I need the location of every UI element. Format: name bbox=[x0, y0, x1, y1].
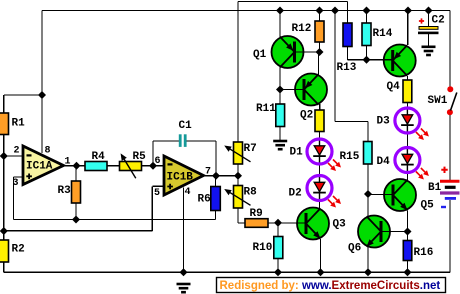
svg-text:R15: R15 bbox=[340, 151, 360, 163]
svg-text:C1: C1 bbox=[179, 120, 193, 132]
svg-text:D3: D3 bbox=[377, 116, 391, 128]
svg-text:R8: R8 bbox=[244, 187, 258, 199]
svg-text:D4: D4 bbox=[377, 156, 391, 168]
wire x335 vertical long bbox=[334, 11, 336, 122]
LED D1 bbox=[307, 138, 332, 166]
wire resistor to D1 anode bbox=[319, 132, 321, 138]
node junction supply rail R14 top bbox=[363, 7, 371, 15]
wire C1 feedback right vertical to pin7 bbox=[215, 141, 217, 176]
wire main positive supply rail y10.5 bbox=[42, 10, 450, 12]
node junction supply rail x280 (Q1 emitter) bbox=[276, 7, 284, 15]
wire IC1A pin2 horizontal bbox=[4, 155, 23, 157]
wire Q5 emitter vertical bbox=[407, 210, 409, 231]
wire R12 top vertical bbox=[319, 11, 321, 22]
resistor R3 bbox=[72, 181, 81, 203]
svg-text:R14: R14 bbox=[373, 28, 393, 40]
trimmer arrow R7 bbox=[224, 146, 250, 162]
svg-text:2: 2 bbox=[14, 146, 20, 157]
wire R10 bottom vertical bbox=[277, 259, 279, 273]
trimmer arrow R8 bbox=[224, 189, 250, 205]
battery B1 bbox=[440, 181, 460, 198]
node junction pin7 R6 top x216 bbox=[212, 172, 220, 180]
LED D4 bbox=[395, 146, 420, 174]
wire R13 bottom elbow bbox=[347, 47, 349, 60]
svg-text:R1: R1 bbox=[12, 118, 26, 130]
wire Q6 base horizontal bbox=[381, 231, 408, 233]
IC1A plus sign non-inverting input mark bbox=[26, 174, 32, 180]
resistor R9 bbox=[245, 219, 268, 228]
svg-text:R16: R16 bbox=[414, 247, 434, 259]
wire IC1B output pin7 bbox=[204, 175, 239, 177]
wire Q6 collector vertical bbox=[367, 194, 369, 217]
svg-text:B1: B1 bbox=[428, 182, 442, 194]
switch SW1 bbox=[447, 86, 457, 115]
resistor R15 bbox=[364, 142, 373, 165]
wire left rail R1 to pin2 node bbox=[3, 135, 5, 157]
svg-text:6: 6 bbox=[155, 156, 161, 167]
svg-text:SW1: SW1 bbox=[428, 95, 448, 107]
node junction supply rail C2 top bbox=[425, 7, 433, 15]
svg-text:R11: R11 bbox=[256, 103, 276, 115]
wire R1 branch horizontal y95 bbox=[4, 94, 42, 96]
wire R8 top to node bbox=[237, 176, 239, 186]
wire R6 top vertical bbox=[215, 176, 217, 187]
transistor Q2 bbox=[295, 74, 327, 106]
resistor R11 bbox=[276, 104, 285, 127]
wire C1 feedback top left segment bbox=[153, 140, 179, 142]
svg-text:C2: C2 bbox=[432, 15, 445, 27]
wire Q4 emitter vertical bbox=[407, 11, 409, 46]
node junction supply rail x408 (Q4 emitter) bbox=[404, 7, 412, 15]
wire left rail pin2 node to pin5 node bbox=[3, 156, 5, 231]
wire left rail to R2 top bbox=[3, 231, 5, 240]
node junction R14 bottom base net bbox=[363, 56, 371, 64]
wire switch to battery plus bbox=[449, 115, 451, 180]
wire IC1B pin5 net: left segment y231 bbox=[4, 230, 153, 232]
wire Q1 base to node x319 bbox=[295, 51, 320, 53]
wire R12 bottom vertical bbox=[319, 42, 321, 52]
svg-text:Q4: Q4 bbox=[387, 81, 401, 93]
wire R2 bottom to ground rail bbox=[3, 262, 5, 272]
transistor Q3 bbox=[297, 208, 329, 240]
svg-text:D1: D1 bbox=[290, 147, 304, 159]
wire R11 top vertical bbox=[279, 90, 281, 105]
wire Q2 collector to emitter resistor bbox=[319, 104, 321, 110]
wire Q3 emitter vertical to ground rail bbox=[320, 239, 322, 272]
svg-text:Q3: Q3 bbox=[333, 219, 347, 231]
node junction R3 bottom y219.5 bbox=[72, 216, 80, 224]
svg-text:Q6: Q6 bbox=[348, 243, 361, 255]
wire R9 to Q3 base bbox=[268, 222, 306, 224]
node junction R16 bottom rail bbox=[404, 268, 412, 276]
svg-text:D2: D2 bbox=[289, 188, 302, 200]
node junction pin6 x153 bbox=[149, 162, 157, 170]
wire right rail top segment to switch bbox=[449, 11, 451, 88]
wire R7 bottom to node bbox=[237, 164, 239, 176]
wire C2 bottom to ground bbox=[428, 34, 430, 46]
node junction supply rail x319 (R12 top) bbox=[316, 7, 324, 15]
IC1B minus sign bbox=[168, 163, 173, 165]
wire C1 feedback left vertical bbox=[152, 141, 154, 166]
op-amp IC1A bbox=[23, 146, 64, 185]
wire IC1A pin3 horizontal bbox=[14, 176, 24, 178]
node junction ground x183.5 bbox=[180, 268, 188, 276]
wire vertical x347 from top rail down to R13 top bbox=[347, 2, 349, 24]
trimmer arrow R5 bbox=[121, 153, 136, 178]
ground symbol below R11 bbox=[273, 141, 287, 149]
attribution box bbox=[217, 278, 446, 293]
wire resistor to D3 anode bbox=[406, 103, 408, 107]
resistor below Q4 (unlabeled) bbox=[403, 80, 412, 103]
trimmer resistor R8 bbox=[234, 186, 243, 209]
wire battery minus down right rail bbox=[449, 200, 451, 272]
battery minus polarity mark bbox=[441, 206, 446, 208]
resistor R10 bbox=[274, 237, 283, 259]
node junction Q1 collector Q2 base R11 bbox=[276, 86, 284, 94]
wire R5 to IC1B pin6 bbox=[142, 165, 165, 167]
node junction Q5 emitter Q6 base R16 top bbox=[404, 228, 412, 236]
wire vertical x42 supply to IC1A pin8 bbox=[41, 11, 43, 154]
svg-text:R10: R10 bbox=[253, 242, 273, 254]
node junction R10 bottom rail bbox=[274, 268, 282, 276]
wire Q4 collector to resistor bbox=[407, 76, 409, 80]
transistor Q6 bbox=[358, 216, 390, 248]
wire IC1B pin5 net: vertical x152 bbox=[151, 186, 153, 231]
node junction Q6 emitter bottom rail bbox=[364, 268, 372, 276]
svg-text:IC1A: IC1A bbox=[26, 161, 53, 173]
capacitor C1 bbox=[179, 134, 187, 147]
wire R3 bottom vertical bbox=[75, 203, 77, 220]
wire R15 top vertical bbox=[367, 122, 369, 142]
wire bottom ground rail y272 bbox=[4, 271, 450, 273]
node junction supply rail x335 bbox=[331, 7, 339, 15]
wire left rail x4 upper bbox=[3, 95, 5, 113]
wire D3 cathode to D4 anode bbox=[406, 135, 408, 147]
svg-text:R4: R4 bbox=[92, 151, 106, 163]
wire R15 bottom vertical bbox=[367, 164, 369, 194]
svg-text:IC1B: IC1B bbox=[167, 172, 194, 184]
resistor R1 bbox=[0, 113, 9, 135]
wire C1 feedback top right segment bbox=[187, 140, 216, 142]
wire R14 bottom vertical bbox=[366, 46, 368, 60]
LED D3 bbox=[395, 107, 420, 135]
node junction x42 y95 bbox=[38, 91, 46, 99]
wire R11 bottom to ground bbox=[279, 127, 281, 141]
node junction IC1A output x76.5 bbox=[73, 162, 81, 170]
svg-text:5: 5 bbox=[154, 188, 160, 199]
IC1B plus sign bbox=[167, 184, 173, 190]
svg-text:R5: R5 bbox=[133, 151, 147, 163]
capacitor C2 polarized bbox=[418, 27, 439, 35]
wire pin3 vertical x13.5 bbox=[13, 177, 15, 220]
svg-text:8: 8 bbox=[45, 146, 51, 157]
wire pin3 net horizontal y219.5 to R6 bottom bbox=[14, 219, 216, 221]
resistor R4 bbox=[85, 162, 107, 171]
resistor below Q2 (unlabeled) bbox=[315, 110, 324, 132]
node junction R12 bottom Q1 base Q2 emitter bbox=[316, 48, 324, 56]
svg-text:R3: R3 bbox=[58, 185, 72, 197]
svg-text:Q2: Q2 bbox=[300, 110, 313, 122]
wire R16 bottom vertical bbox=[407, 261, 409, 273]
wire y121.5 horizontal to R15 column bbox=[335, 121, 368, 123]
wire R10 top vertical bbox=[277, 223, 279, 237]
svg-text:R9: R9 bbox=[250, 208, 263, 220]
svg-text:R13: R13 bbox=[337, 62, 357, 74]
wire R6 bottom vertical bbox=[215, 211, 217, 220]
transistor Q1 bbox=[272, 36, 304, 68]
wire D4 cathode to Q5 collector bbox=[406, 174, 408, 180]
wire Q4 base horizontal bbox=[367, 59, 393, 61]
node junction Q3 emitter bottom rail bbox=[317, 268, 325, 276]
wire Q6 emitter vertical to ground rail bbox=[367, 247, 369, 272]
wire R8 bottom elbow to R9 bbox=[237, 208, 239, 223]
wire top feedback rail (R7 top to R13 top) bbox=[238, 1, 348, 3]
svg-text:Redisgned by: www.ExtremeCircu: Redisgned by: www.ExtremeCircuits.net bbox=[220, 280, 441, 292]
trimmer resistor R5 bbox=[120, 162, 142, 171]
resistor R16 bbox=[403, 241, 412, 261]
resistor R14 bbox=[362, 23, 371, 46]
node junction R10 top x278 bbox=[274, 219, 282, 227]
svg-text:Q1: Q1 bbox=[253, 49, 267, 61]
wire Q5 base horizontal bbox=[368, 194, 394, 196]
resistor R12 bbox=[315, 21, 324, 42]
IC1A minus sign inverting input mark bbox=[27, 154, 32, 156]
ground symbol below IC1B pin4 bbox=[177, 284, 191, 292]
wire Q1 collector vertical bbox=[279, 67, 281, 90]
wire Q2 emitter vertical bbox=[318, 52, 320, 75]
wire Q1 emitter vertical bbox=[279, 11, 281, 38]
wire R16 top vertical bbox=[407, 232, 409, 241]
node junction pin2 x4 y156 bbox=[0, 152, 8, 160]
LED D2 bbox=[307, 174, 332, 202]
svg-text:R7: R7 bbox=[244, 143, 257, 155]
svg-text:R6: R6 bbox=[198, 194, 211, 206]
wire IC1B pin5 horizontal into op-amp bbox=[152, 185, 164, 187]
trimmer resistor R7 bbox=[234, 142, 243, 164]
wire D1 cathode to D2 anode bbox=[319, 166, 321, 175]
wire Q2 base horizontal bbox=[280, 89, 304, 91]
svg-text:R12: R12 bbox=[292, 23, 312, 35]
battery plus polarity mark bbox=[441, 167, 447, 173]
wire C2 top vertical bbox=[428, 11, 430, 27]
wire R14 top vertical bbox=[366, 11, 368, 24]
wire IC1B pin4 vertical to ground bbox=[183, 188, 185, 273]
wire D2 cathode to Q3 collector bbox=[319, 202, 321, 209]
wire vertical x238 from top rail down to R7 top bbox=[237, 2, 239, 143]
wire R3 top vertical bbox=[75, 166, 77, 181]
svg-text:Q5: Q5 bbox=[421, 200, 435, 212]
wire IC1A output pin1 to R4 bbox=[64, 165, 86, 167]
resistor R2 bbox=[0, 240, 9, 262]
node junction x4 y231 bbox=[0, 227, 8, 235]
wire R4 to R5 bbox=[107, 165, 120, 167]
transistor Q4 bbox=[384, 45, 416, 77]
resistor R13 bbox=[343, 23, 352, 47]
svg-text:R2: R2 bbox=[12, 244, 25, 256]
op-amp IC1B bbox=[164, 156, 204, 195]
node junction R15 bottom Q5 base Q6 collector bbox=[364, 190, 372, 198]
ground symbol below C2 bbox=[422, 47, 436, 55]
svg-text:4: 4 bbox=[185, 187, 191, 198]
resistor R6 bbox=[211, 187, 221, 211]
transistor Q5 bbox=[384, 179, 416, 211]
C2 plus polarity mark bbox=[419, 18, 424, 23]
node junction R7 R8 wiper x238 bbox=[234, 172, 242, 180]
